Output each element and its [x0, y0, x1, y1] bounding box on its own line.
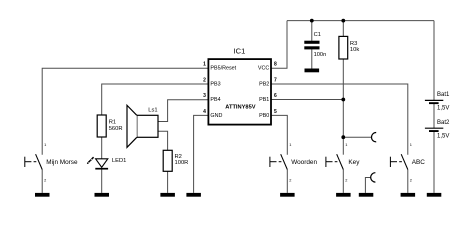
wire VCC pin8 up to top rail — [271, 21, 287, 69]
connector J1 pin2 arc — [371, 173, 376, 182]
switch S4 ABC — [390, 142, 425, 183]
svg-text:Bat1: Bat1 — [437, 92, 450, 98]
switch S1 Mijn Morse — [25, 142, 78, 183]
svg-text:100R: 100R — [175, 160, 189, 166]
svg-text:2: 2 — [203, 77, 206, 83]
svg-text:LED1: LED1 — [112, 158, 127, 164]
svg-text:GND: GND — [210, 113, 222, 119]
svg-text:Key: Key — [348, 159, 360, 166]
switch S3 Key — [326, 142, 360, 183]
node junction Key / connector — [341, 135, 345, 139]
IC1 pin 4 GND — [203, 109, 222, 119]
node junction top rail / R3 — [341, 19, 345, 23]
ground ABC — [401, 193, 416, 197]
battery Bat1 1.5V — [425, 92, 450, 112]
svg-text:7: 7 — [274, 77, 277, 83]
wire PB4 pin3 to speaker Ls1 top terminal — [158, 100, 208, 122]
svg-text:1: 1 — [345, 142, 347, 147]
IC1 pin 3 PB4 — [203, 93, 220, 103]
wire rail down to Bat1 — [433, 21, 435, 100]
svg-text:2: 2 — [410, 177, 412, 182]
wire connector J1 pin2 to ground — [365, 178, 370, 193]
svg-text:Mijn Morse: Mijn Morse — [46, 159, 78, 166]
svg-text:C1: C1 — [314, 32, 321, 38]
svg-text:Bat2: Bat2 — [437, 120, 450, 126]
node junction PB1 / R3 column — [341, 98, 345, 102]
wire PB1 pin6 to node at R3 column — [271, 99, 343, 101]
svg-text:PB3: PB3 — [210, 81, 220, 87]
wire Mijn Morse switch to ground — [41, 170, 43, 193]
wire ABC switch to ground — [407, 170, 409, 193]
wire Bat1 to Bat2 — [433, 104, 435, 128]
wire LED1 to ground — [101, 169, 103, 193]
svg-text:IC1: IC1 — [234, 47, 246, 56]
svg-text:ABC: ABC — [412, 159, 426, 166]
ground R2 — [160, 193, 175, 197]
wire R1 to LED1 — [101, 137, 103, 159]
ground Key — [336, 193, 351, 197]
wire R2 to ground — [167, 171, 169, 193]
wire speaker bottom terminal to R2 — [158, 131, 168, 150]
svg-text:1: 1 — [44, 142, 46, 147]
wire C1 bottom stub to ground — [311, 49, 313, 68]
resistor R1 560R — [97, 115, 122, 137]
svg-text:2: 2 — [345, 177, 347, 182]
wire PB2 pin7 to ABC switch — [271, 84, 408, 155]
ground for C1 — [305, 69, 320, 73]
svg-text:5: 5 — [274, 109, 277, 115]
wire PB5/Reset pin1 to Mijn Morse switch — [42, 68, 208, 155]
svg-text:Ls1: Ls1 — [148, 108, 157, 114]
ground Woorden — [280, 193, 295, 197]
svg-text:560R: 560R — [109, 126, 123, 132]
ground connector J1 — [359, 193, 374, 197]
svg-text:ATTINY85V: ATTINY85V — [225, 104, 255, 110]
speaker Ls1 — [127, 105, 158, 147]
wire Bat2 to ground — [433, 132, 435, 193]
svg-text:1,5V: 1,5V — [437, 106, 449, 112]
IC IC1 ATTINY85V — [208, 47, 271, 125]
wire Woorden switch to ground — [286, 170, 288, 193]
LED LED1 — [87, 157, 127, 169]
svg-text:100n: 100n — [314, 52, 327, 58]
ground IC GND — [186, 193, 201, 197]
ground battery — [427, 193, 442, 197]
svg-text:R1: R1 — [109, 120, 116, 126]
switch S2 Woorden — [270, 142, 318, 183]
IC1 pin 8 VCC — [258, 62, 277, 72]
svg-text:2: 2 — [44, 177, 46, 182]
resistor R3 10k — [339, 36, 359, 59]
svg-text:1,5V: 1,5V — [437, 134, 449, 140]
svg-text:8: 8 — [274, 62, 277, 68]
svg-text:VCC: VCC — [258, 66, 269, 72]
svg-text:R2: R2 — [175, 154, 182, 160]
wire Key switch to ground — [342, 170, 344, 193]
wire C1 top stub — [311, 21, 313, 41]
IC1 pin 6 PB1 — [259, 93, 277, 103]
wire GND pin4 to ground — [194, 115, 209, 192]
wire R3 bottom down to Key switch — [342, 59, 344, 155]
wire Key node to connector J1 pin1 — [343, 136, 371, 138]
svg-text:10k: 10k — [350, 47, 359, 53]
svg-text:4: 4 — [203, 109, 206, 115]
wire PB0 pin5 to Woorden switch — [271, 115, 287, 154]
svg-text:PB5/Reset: PB5/Reset — [210, 66, 236, 72]
wire top VCC rail — [287, 20, 434, 22]
svg-text:1: 1 — [410, 142, 412, 147]
battery Bat2 1.5V — [425, 120, 450, 140]
node junction top rail / C1 — [310, 19, 314, 23]
resistor R2 100R — [163, 150, 188, 171]
svg-text:1: 1 — [203, 62, 206, 68]
svg-text:PB4: PB4 — [210, 97, 220, 103]
svg-text:3: 3 — [203, 93, 206, 99]
IC1 pin 2 PB3 — [203, 77, 220, 87]
IC1 pin 7 PB2 — [259, 77, 277, 87]
connector J1 pin1 arc — [371, 133, 376, 142]
capacitor C1 100n — [304, 32, 326, 58]
svg-text:6: 6 — [274, 93, 277, 99]
svg-text:PB1: PB1 — [259, 97, 269, 103]
ground Mijn Morse — [35, 193, 50, 197]
svg-text:2: 2 — [289, 177, 291, 182]
ground LED1 — [95, 193, 110, 197]
IC1 pin 5 PB0 — [259, 109, 277, 119]
svg-text:PB0: PB0 — [259, 113, 269, 119]
IC1 pin 1 PB5/Reset — [203, 62, 237, 72]
wire R3 top stub — [342, 21, 344, 37]
svg-text:Woorden: Woorden — [291, 159, 317, 166]
wire PB3 pin2 to R1 — [102, 84, 209, 115]
svg-text:1: 1 — [289, 142, 291, 147]
svg-text:PB2: PB2 — [259, 81, 269, 87]
